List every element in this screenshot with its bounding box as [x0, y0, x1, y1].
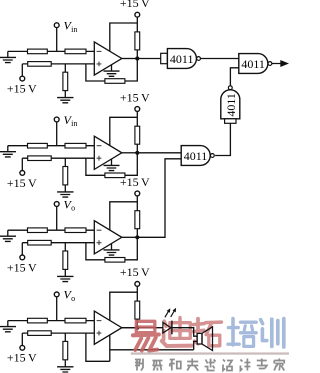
wire Vo drop (row 4) [56, 297, 58, 321]
LED emission arrow 1 [165, 311, 169, 317]
wire op-amp V- stub (row 2) [111, 159, 113, 165]
wire to left ground (row 3) [7, 230, 9, 236]
wire divider to ground (row 2) [64, 185, 66, 192]
LED D1 cathode bar [171, 321, 173, 335]
svg-text:o: o [71, 204, 75, 213]
svg-text:4011: 4011 [184, 149, 208, 163]
junction output node (row 3) [135, 235, 139, 239]
wire to left ground (row 1) [7, 51, 9, 57]
wire +15V drop (row 4) [21, 333, 23, 345]
resistor divider (row 1) [63, 72, 68, 90]
resistor feedback (row 3) [105, 258, 125, 263]
NAND gate G4 4011 [181, 146, 210, 166]
svg-text:4011: 4011 [241, 57, 265, 71]
wire non-inverting rail (row 1) [22, 63, 94, 65]
junction output node (row 2) [135, 151, 139, 155]
ground left (row 3) [0, 236, 16, 241]
wire divider to ground (row 3) [64, 269, 66, 276]
wire inverting input rail (row 3) [8, 229, 95, 231]
NAND gate G1 4011 [167, 49, 196, 69]
svg-text:4011: 4011 [170, 52, 194, 66]
resistor pull-up (row 3) [135, 211, 140, 229]
svg-text:+15 V: +15 V [7, 260, 37, 274]
svg-text:in: in [71, 119, 77, 128]
resistor divider (row 3) [63, 251, 68, 269]
wire feedback down (row 3) [125, 237, 137, 259]
wire feedback return (row 1) [86, 64, 105, 81]
ground divider (row 1) [57, 98, 73, 103]
wire op-amp V- stub (row 3) [111, 244, 113, 250]
resistor input R-left (row 3) [28, 228, 48, 233]
wire LED to speaker [172, 328, 197, 337]
resistor reference R (row 2) [28, 156, 52, 161]
resistor pull-up (row 2) [135, 126, 140, 144]
svg-text:+15 V: +15 V [120, 265, 150, 279]
node Vin terminal (row 1) [54, 23, 59, 28]
wire to left ground (row 4) [7, 321, 9, 327]
node +15V terminal left (row 2) [20, 171, 25, 176]
wire op-amp output (row 3) [122, 236, 138, 238]
wire V+ branch (row 1) [110, 23, 138, 51]
wire +15V feed (row 2) [136, 111, 138, 126]
resistor feedback (row 1) [105, 79, 125, 84]
svg-text:+15 V: +15 V [120, 175, 150, 189]
resistor pull-up (row 4) [135, 301, 140, 319]
ground divider (row 3) [57, 276, 73, 281]
node +15V terminal top (row 1) [135, 12, 140, 17]
NAND gate G3 input tie box [225, 119, 236, 124]
NAND gate G2 4011 [239, 54, 268, 74]
wire +15V drop (row 1) [21, 64, 23, 76]
NAND gate G3 4011 (vertical) [221, 90, 240, 119]
wire feedback return (row 3) [86, 243, 105, 260]
wire G1 to G2 [200, 58, 238, 60]
wire speaker return rail [110, 349, 194, 351]
speaker LS1 box [197, 333, 202, 344]
wire return to speaker [194, 341, 198, 349]
resistor input R-right (row 4) [65, 318, 86, 323]
LED emission arrow 2 [171, 311, 175, 317]
resistor divider (row 2) [63, 167, 68, 185]
wire V+ branch (row 2) [110, 117, 138, 145]
wire inverting input rail (row 2) [8, 145, 95, 147]
wire G2 lower input [230, 68, 238, 86]
resistor divider (row 4) [63, 341, 68, 359]
op-amp comparator U2 [94, 136, 122, 169]
ground op-amp (row 1) [104, 71, 120, 76]
wire non-inverting rail (row 2) [22, 157, 94, 159]
wire feedback down (row 2) [125, 153, 137, 176]
svg-text:+15 V: +15 V [7, 351, 37, 365]
watermark logo big glyphs [133, 318, 284, 351]
wire V+ branch (row 4) [110, 292, 138, 320]
wire divider tap (row 4) [64, 333, 66, 341]
svg-text:+15 V: +15 V [120, 90, 150, 104]
node +15V terminal left (row 4) [20, 345, 25, 350]
ground divider (row 4) [57, 367, 73, 372]
wire feedback return (row 2) [86, 158, 105, 175]
output arrow [280, 60, 289, 67]
ground op-amp (row 2) [104, 165, 120, 170]
node Vo terminal (row 4) [54, 292, 59, 297]
wire feedback down (row 1) [125, 59, 137, 82]
op-amp comparator U3 [94, 221, 122, 254]
watermark underline [131, 352, 289, 354]
resistor input R-right (row 1) [65, 49, 86, 54]
ground divider (row 2) [57, 192, 73, 197]
node Vin terminal (row 2) [54, 117, 59, 122]
svg-text:+15 V: +15 V [7, 82, 37, 96]
wire Vin drop (row 2) [56, 122, 58, 146]
wire to left ground (row 2) [7, 146, 9, 152]
resistor pull-up (row 1) [135, 32, 140, 50]
svg-text:in: in [71, 25, 77, 34]
svg-text:+15 V: +15 V [120, 0, 150, 10]
speaker LS1 horn [202, 327, 213, 351]
wire Vin drop (row 1) [56, 28, 58, 52]
wire U1 output to gate G1 [137, 58, 160, 60]
resistor feedback (row 2) [105, 173, 125, 178]
wire divider tap (row 2) [64, 158, 66, 166]
wire divider tap (row 3) [64, 243, 66, 251]
svg-text:4011: 4011 [224, 93, 238, 117]
wire inverting input rail (row 1) [8, 50, 95, 52]
node +15V terminal left (row 3) [20, 255, 25, 260]
wire G4 output to G3 input [215, 123, 230, 155]
resistor input R-right (row 2) [65, 143, 86, 148]
ground left (row 4) [0, 327, 16, 332]
wire divider to ground (row 4) [64, 360, 66, 367]
wire divider to ground (row 1) [64, 91, 66, 98]
NAND gate G1 input tie box [161, 53, 168, 63]
wire U4 V- pin down [109, 335, 111, 361]
wire Vo drop (row 3) [56, 207, 58, 231]
junction pull-up row4 [135, 326, 139, 330]
node +15V terminal left (row 1) [20, 76, 25, 81]
ground left (row 1) [0, 57, 16, 62]
op-amp comparator U4 [94, 311, 122, 344]
LED D1 triangle [163, 322, 171, 333]
wire +15V feed (row 1) [136, 17, 138, 32]
wire +15V drop (row 3) [21, 243, 23, 255]
wire pull-up to output (row 4) [136, 319, 138, 328]
wire pull-up to output (row 2) [136, 144, 138, 153]
node +15V terminal top (row 2) [135, 107, 140, 112]
wire non-inverting rail (row 4) [22, 332, 94, 334]
svg-text:o: o [71, 294, 75, 303]
wire U3 output to gate G4 lower input [137, 159, 181, 238]
node +15V terminal top (row 4) [135, 282, 140, 287]
wire U4 output to LED [122, 327, 163, 329]
resistor input R-left (row 1) [28, 49, 48, 54]
svg-text:+15 V: +15 V [7, 176, 37, 190]
resistor input R-right (row 3) [65, 228, 86, 233]
watermark slogan 射频和天线设计专家 [135, 359, 284, 371]
resistor input R-left (row 2) [28, 143, 48, 148]
wire V+ branch (row 3) [110, 202, 138, 230]
wire +15V feed (row 4) [136, 286, 138, 301]
junction output node (row 1) [135, 56, 139, 60]
node Vo terminal (row 3) [54, 202, 59, 207]
wire divider tap (row 1) [64, 64, 66, 72]
wire op-amp output (row 4) [122, 327, 138, 329]
op-amp comparator U1 [94, 42, 122, 75]
resistor reference R (row 3) [28, 240, 52, 245]
ground left (row 2) [0, 152, 16, 157]
NAND gate G3 output bubble [228, 86, 232, 90]
wire +15V feed (row 3) [136, 196, 138, 211]
wire op-amp output (row 1) [122, 58, 138, 60]
wire feedback row 4 [86, 333, 110, 361]
ground op-amp (row 3) [104, 250, 120, 255]
junction output node (row 4) [135, 326, 139, 330]
wire op-amp V- stub (row 1) [111, 65, 113, 71]
wire G2 output to arrow [272, 63, 281, 65]
wire +15V drop (row 2) [21, 158, 23, 170]
wire inverting input rail (row 4) [8, 320, 95, 322]
wire U2 output to gate G4 [137, 152, 181, 154]
wire pull-up to output (row 1) [136, 50, 138, 59]
resistor reference R (row 1) [28, 62, 52, 67]
wire pull-up to output (row 3) [136, 229, 138, 238]
resistor reference R (row 4) [28, 331, 52, 336]
resistor input R-left (row 4) [28, 318, 48, 323]
node +15V terminal top (row 3) [135, 191, 140, 196]
wire non-inverting rail (row 3) [22, 242, 94, 244]
wire op-amp output (row 2) [122, 152, 138, 154]
